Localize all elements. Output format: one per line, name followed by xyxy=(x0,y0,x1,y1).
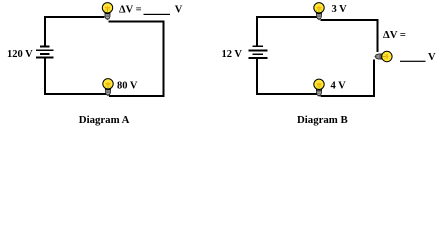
svg-text:12 V: 12 V xyxy=(222,49,243,60)
svg-text:4 V: 4 V xyxy=(331,80,347,91)
svg-text:Diagram B: Diagram B xyxy=(297,114,348,126)
svg-text:ΔV =: ΔV = xyxy=(383,29,406,41)
svg-text:3 V: 3 V xyxy=(332,4,348,15)
svg-text:80 V: 80 V xyxy=(117,81,138,92)
svg-text:120 V: 120 V xyxy=(7,49,33,60)
svg-text:Diagram A: Diagram A xyxy=(79,114,130,126)
svg-text:V: V xyxy=(428,52,436,63)
svg-text:ΔV =: ΔV = xyxy=(119,4,142,15)
svg-text:V: V xyxy=(175,4,183,15)
